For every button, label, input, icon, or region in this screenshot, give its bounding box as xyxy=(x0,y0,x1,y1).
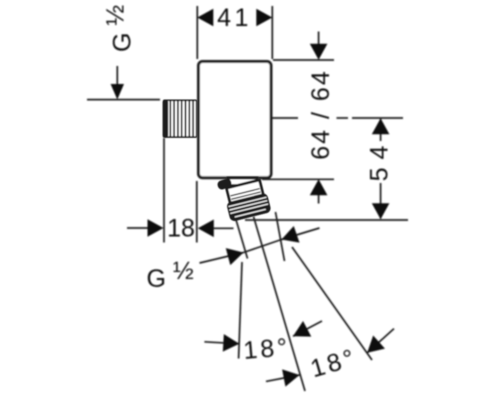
svg-text:54: 54 xyxy=(366,138,394,182)
svg-text:G ½: G ½ xyxy=(102,5,137,52)
svg-text:18: 18 xyxy=(167,215,195,243)
svg-text:G ½: G ½ xyxy=(147,257,194,293)
svg-text:64 / 64: 64 / 64 xyxy=(307,69,335,159)
svg-text:18°: 18° xyxy=(307,343,360,383)
svg-text:18°: 18° xyxy=(242,333,291,365)
svg-text:41: 41 xyxy=(217,4,252,32)
